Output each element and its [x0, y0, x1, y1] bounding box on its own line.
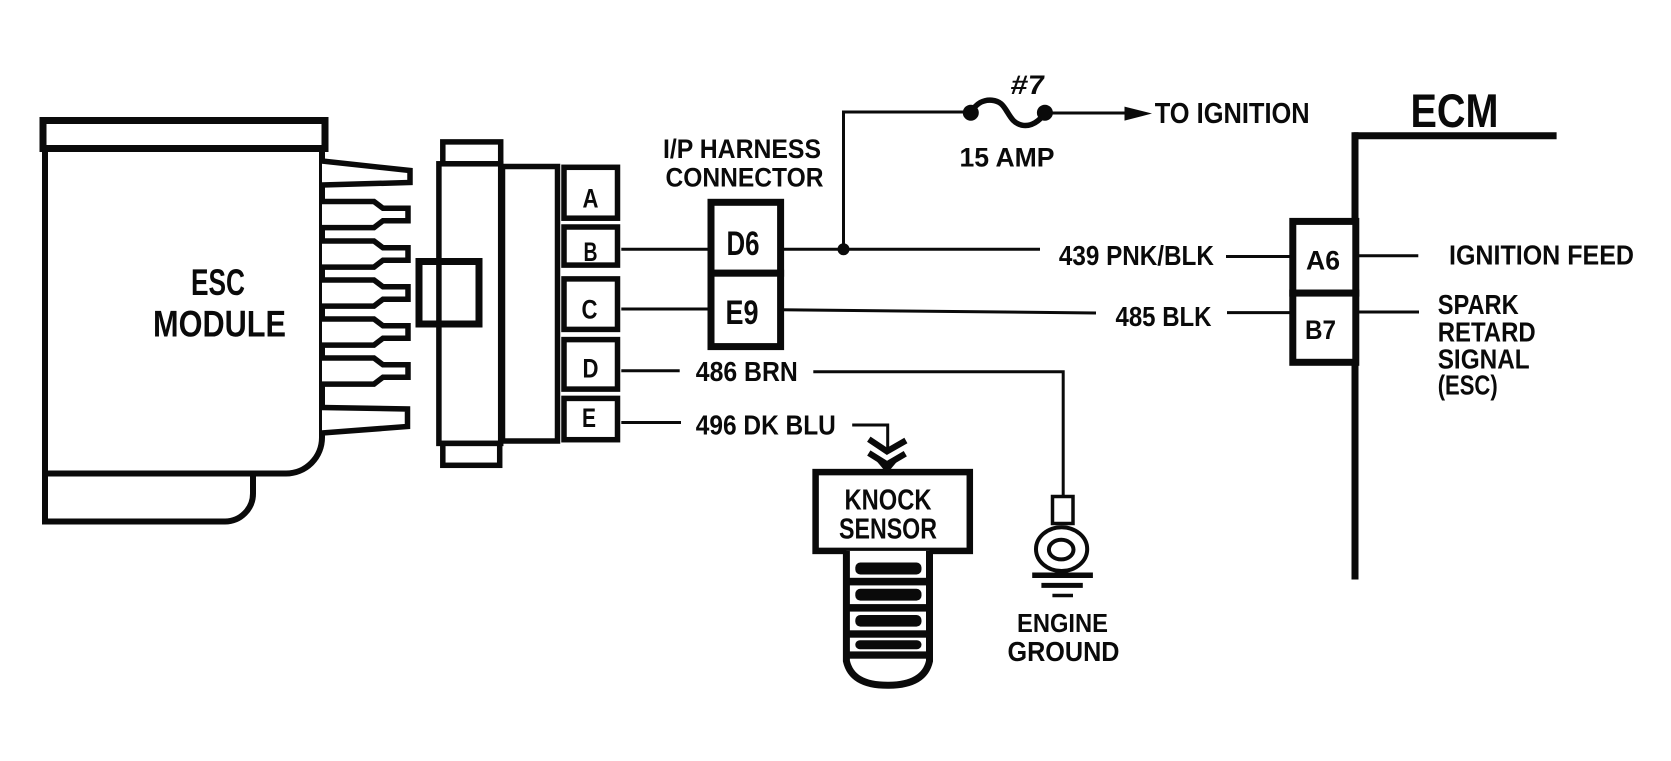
svg-text:ECM: ECM	[1411, 84, 1499, 137]
knock sensor arrow tip	[877, 461, 898, 474]
connector housing bottom tab	[443, 443, 500, 465]
ESC module bottom tray	[45, 474, 253, 522]
wire B to D6	[621, 248, 711, 251]
wire B7 to spark retard	[1356, 311, 1419, 314]
ESC module pin 1 (top wedge)	[322, 161, 410, 185]
wire 486 to engine ground	[813, 372, 1063, 497]
I/P HARNESS CONNECTOR label	[663, 134, 824, 193]
bolt thread band 2	[849, 604, 927, 612]
knock sensor box	[816, 472, 970, 551]
ESC module body	[45, 149, 322, 474]
svg-text:TO IGNITION: TO IGNITION	[1155, 98, 1310, 130]
wire D to 486 label	[621, 369, 679, 372]
svg-text:KNOCK: KNOCK	[845, 485, 932, 517]
svg-text:485 BLK: 485 BLK	[1116, 301, 1212, 332]
terminal box D	[564, 340, 618, 390]
bolt thread band 1	[849, 578, 927, 586]
bolt thread slot 4	[855, 640, 921, 649]
ground line 2	[1041, 583, 1082, 588]
bolt thread slot 2	[855, 589, 921, 601]
arrowhead to ignition	[1125, 107, 1153, 121]
wire junction up to fuse	[844, 112, 966, 249]
svg-text:IGNITION FEED: IGNITION FEED	[1449, 240, 1634, 271]
svg-text:D6: D6	[727, 225, 760, 263]
engine ground ring terminal	[1036, 527, 1087, 571]
KNOCK SENSOR label	[839, 485, 937, 546]
svg-text:A: A	[583, 184, 599, 214]
fuse #7 element	[971, 100, 1045, 125]
svg-text:SENSOR: SENSOR	[839, 514, 937, 546]
ECM boundary line	[1352, 132, 1359, 579]
svg-text:439 PNK/BLK: 439 PNK/BLK	[1059, 240, 1214, 271]
wire A6 to ignition feed	[1356, 254, 1419, 257]
terminal box A	[564, 167, 618, 218]
engine ground ring hole	[1049, 540, 1074, 560]
connector housing top tab	[443, 142, 501, 164]
knock sensor arrow lower chevron	[869, 453, 906, 464]
fuse #7 left dot	[963, 105, 979, 121]
ECM terminal A6 box	[1293, 221, 1356, 293]
wire fuse to ignition arrow	[1045, 112, 1130, 115]
ESC module pin 3	[322, 241, 408, 267]
svg-text:E9: E9	[726, 294, 759, 332]
wire 496 to knock sensor	[852, 425, 888, 451]
ESC module pin 7 (bottom wedge)	[322, 408, 408, 434]
ESC MODULE label	[153, 262, 286, 345]
svg-text:D: D	[583, 354, 599, 384]
svg-text:MODULE: MODULE	[153, 304, 286, 345]
connector middle column	[503, 167, 558, 442]
svg-text:(ESC): (ESC)	[1438, 370, 1498, 401]
svg-text:E: E	[582, 403, 596, 433]
terminal box E	[564, 398, 618, 439]
svg-text:GROUND: GROUND	[1008, 636, 1120, 667]
fuse #7 right dot	[1037, 105, 1053, 121]
knock sensor bolt body	[846, 551, 929, 685]
junction dot	[838, 243, 850, 255]
ESC module pin 2	[322, 202, 408, 228]
I/P harness connector D6 box	[711, 202, 781, 273]
ECM top line	[1354, 132, 1557, 139]
svg-text:C: C	[582, 295, 598, 325]
bolt thread band 3	[849, 630, 927, 637]
bolt thread band 4	[849, 651, 927, 658]
terminal box B	[564, 227, 618, 265]
ground line 3	[1052, 594, 1073, 598]
svg-text:ENGINE: ENGINE	[1017, 608, 1108, 638]
svg-text:CONNECTOR: CONNECTOR	[666, 163, 824, 193]
svg-text:B: B	[584, 237, 598, 267]
svg-text:B7: B7	[1305, 315, 1336, 345]
engine ground neck	[1053, 497, 1074, 524]
connector housing tall rect	[439, 164, 501, 444]
svg-text:I/P HARNESS: I/P HARNESS	[663, 134, 821, 164]
knock sensor arrow upper chevron	[869, 439, 906, 451]
wire C to E9	[621, 308, 711, 311]
ESC module pin 5	[322, 319, 408, 345]
ESC module pin 4	[322, 280, 408, 306]
terminal box C	[564, 279, 618, 330]
bolt thread slot 3	[855, 615, 921, 627]
ground line 1	[1032, 573, 1093, 579]
ESC module lid	[43, 121, 325, 149]
connector latch square	[419, 262, 479, 325]
wire D6 to 439 label	[781, 248, 1040, 251]
wire 485 to B7	[1227, 311, 1293, 314]
I/P harness connector E9 box	[711, 273, 781, 346]
ECM terminal B7 box	[1293, 293, 1356, 362]
wire E to 496 label	[621, 421, 681, 424]
svg-text:486 BRN: 486 BRN	[696, 356, 798, 387]
svg-text:#7: #7	[1009, 69, 1046, 100]
wire 439 to A6	[1226, 255, 1293, 258]
svg-text:496 DK BLU: 496 DK BLU	[696, 410, 836, 441]
wire E9 to 485 label	[781, 310, 1096, 313]
ESC module pin 6	[322, 358, 408, 384]
bolt thread slot 1	[855, 563, 921, 575]
svg-text:ESC: ESC	[191, 262, 245, 303]
ENGINE GROUND label	[1008, 608, 1120, 667]
SPARK RETARD SIGNAL (ESC) label	[1438, 289, 1536, 401]
svg-text:15 AMP: 15 AMP	[960, 143, 1055, 173]
svg-text:A6: A6	[1306, 246, 1340, 276]
